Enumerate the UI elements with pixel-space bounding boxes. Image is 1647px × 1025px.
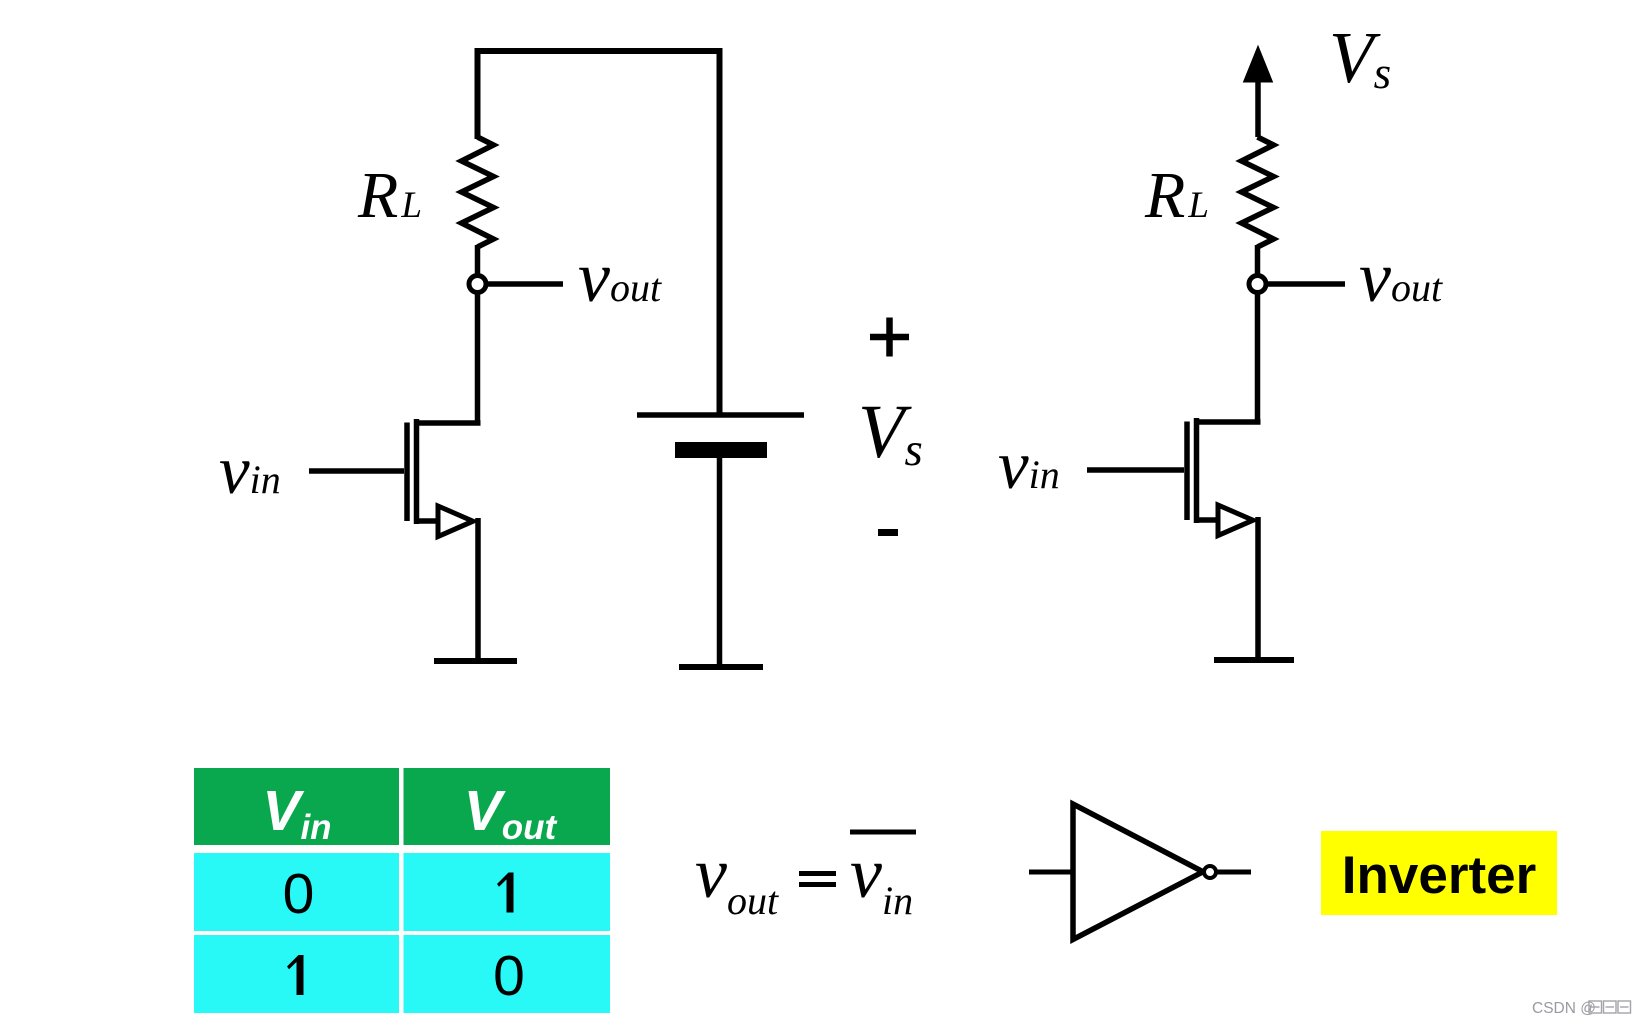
transistor M1 (left NMOS) [407,419,481,537]
inverter gate: input wire [1029,870,1073,875]
label + (battery) [870,318,909,357]
battery Vs: plus plate [637,412,804,418]
wire: source to ground (left) [475,518,481,661]
wire: node to drain (left) [475,293,481,425]
svg-text:0: 0 [283,862,315,926]
resistor RL (right) [1242,137,1274,247]
wire: resistor to node (right) [1255,245,1261,274]
wire: source to ground (right) [1255,517,1261,660]
label - (battery) [878,529,898,536]
ground (left transistor) [434,658,517,664]
svg-text:0: 0 [493,944,525,1008]
inverter gate: bubble [1204,866,1216,878]
svg-text:CSDN @: CSDN @ [1532,1000,1596,1017]
wire: vout stub (right) [1267,281,1345,287]
truth table: row2 cell Vout=0 [404,935,611,1013]
label Inverter (yellow highlight) [1321,831,1557,915]
ground (battery) [679,664,763,670]
transistor M2 (right NMOS) [1187,418,1261,536]
resistor RL (left) [462,137,494,247]
inverter gate: output wire [1217,870,1251,875]
truth table: row1 cell Vout=1 [404,853,611,931]
ground (right transistor) [1214,657,1294,663]
node vout (right) [1249,276,1266,293]
battery Vs: minus plate [675,442,767,458]
watermark CSDN [1532,1000,1631,1017]
wire: gate input (right) [1087,467,1184,473]
wire: vout stub (left) [487,281,563,287]
wire: node to drain (right) [1255,293,1261,424]
wire: top supply rail (left circuit) [478,51,720,413]
truth table: row2 cell Vin=1 [194,935,399,1013]
truth table: header cell Vout [404,768,611,845]
wire: battery to ground [717,458,723,666]
node vout (left) [469,276,486,293]
wire: resistor to node (left) [475,245,481,274]
wire: gate input (left) [309,468,404,474]
truth table: header cell Vin [194,768,399,845]
svg-text:Inverter: Inverter [1342,846,1536,905]
supply arrow Vs (right circuit) [1255,76,1261,137]
truth table: row1 cell Vin=0 [194,853,399,931]
inverter gate U1: triangle [1073,804,1203,940]
